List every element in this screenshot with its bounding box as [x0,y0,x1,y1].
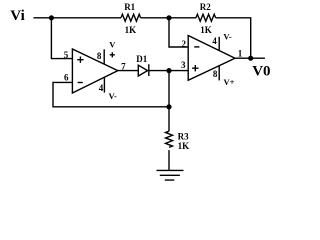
pin 8 label U1 [97,51,102,61]
svg-text:R1: R1 [124,2,135,12]
pin 3 label [181,60,186,70]
op-amp U1 minus mark [78,82,83,84]
svg-text:V+: V+ [224,77,235,87]
pin 7 label [121,62,126,72]
svg-text:3: 3 [181,60,186,70]
svg-text:1: 1 [238,49,243,59]
junction dot output node [248,56,253,61]
pin 6 label [64,73,69,83]
label V- of U2 [223,32,232,42]
pin 4 label U1 [99,83,104,93]
wire R1 to R2 [141,17,196,19]
junction dot Vi node [49,15,54,20]
value 1K of R3 [178,141,190,151]
resistor R3 [166,131,173,147]
op-amp U1 triangle [72,49,117,93]
pin 4 stub U1 [103,77,105,92]
junction dot R3 node [166,104,171,109]
svg-text:2: 2 [182,39,187,49]
svg-text:V: V [109,39,116,49]
label V- of U1 [109,91,118,101]
resistor R1 [121,14,141,21]
wire Vi node down to pin5 [51,18,72,59]
label R2 [200,2,211,12]
value 1K of R2 [200,25,212,35]
pin 4 label U2 [212,36,217,46]
label D1 [136,54,147,64]
wire U2 output [235,57,265,59]
value 1K of R1 [125,25,137,35]
pin 5 label [64,50,69,60]
svg-text:D1: D1 [136,54,147,64]
ground [157,170,184,180]
pin 1 label [238,49,243,59]
label R3 [178,132,189,142]
pin 8 stub U2 [218,66,220,81]
svg-text:V-: V- [109,91,118,101]
wire pin6 feedback [53,82,169,106]
wire diode to pin3 [149,70,188,72]
resistor R2 [196,14,216,21]
wire R1-R2 node down to pin2 [169,18,188,47]
plus of V+ label U1 [110,52,115,57]
svg-text:1K: 1K [200,25,212,35]
wire Vi to R1 (top rail) [34,17,122,19]
pin 8 label U2 [213,69,218,79]
svg-text:Vi: Vi [10,8,24,24]
op-amp U2 plus mark [192,65,198,71]
op-amp U1 plus mark [77,57,83,63]
label R1 [124,2,135,12]
pin 2 label [182,39,187,49]
node Vi label [10,8,24,24]
svg-text:4: 4 [212,36,217,46]
wire R3 to ground [168,150,170,170]
svg-text:5: 5 [64,50,69,60]
pin 4 stub U2 [218,37,220,51]
junction dot diode node [166,68,171,73]
wire R2 right down to output node [216,18,251,58]
label V+ of U1 [109,39,116,49]
svg-text:V0: V0 [252,64,270,80]
junction dot R1-R2 node [166,15,171,20]
svg-text:V-: V- [223,32,232,42]
svg-text:6: 6 [64,73,69,83]
svg-text:4: 4 [99,83,104,93]
diode D1 [138,64,149,76]
svg-text:8: 8 [213,69,218,79]
svg-text:1K: 1K [178,141,190,151]
wire diode node down to R3 node [168,71,170,132]
svg-text:R2: R2 [200,2,211,12]
wire U1 output to diode [118,70,139,72]
svg-text:8: 8 [97,51,102,61]
svg-text:1K: 1K [125,25,137,35]
label V+ of U2 [224,77,235,87]
node V0 label [252,64,270,80]
op-amp U2 triangle [188,36,235,81]
pin 8 stub U1 [103,49,105,64]
op-amp U2 minus mark [194,46,199,48]
